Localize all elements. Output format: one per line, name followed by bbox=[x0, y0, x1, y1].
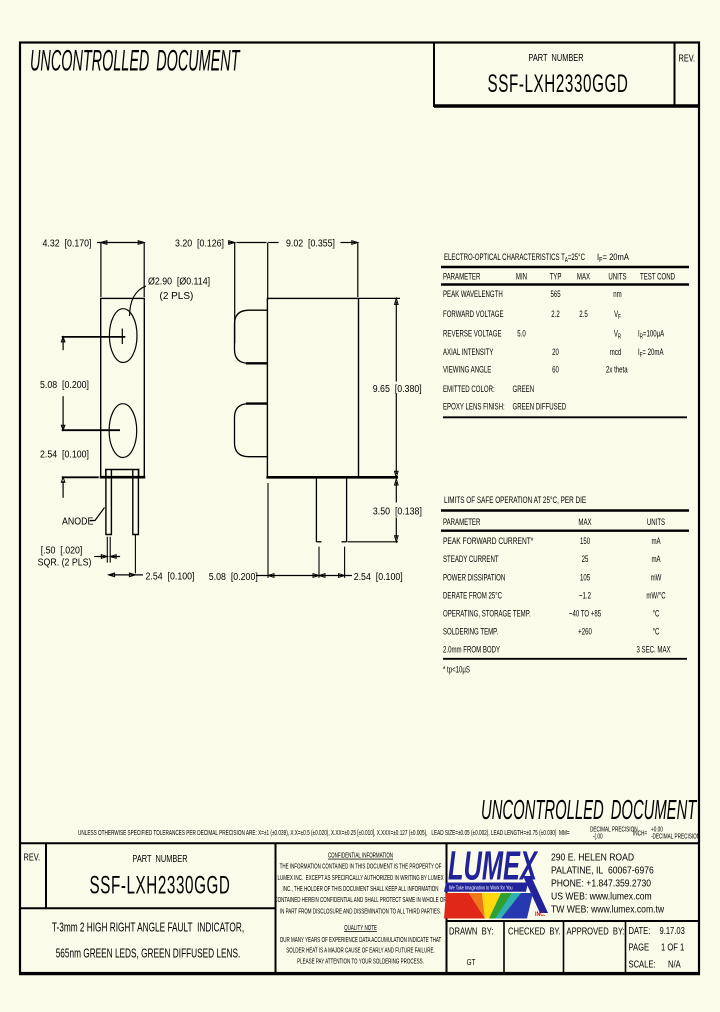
svg-text:UNCONTROLLED DOCUMENT: UNCONTROLLED DOCUMENT bbox=[30, 44, 241, 77]
lead 2 extension line below bbox=[134, 535, 136, 573]
svg-text:LIMITS OF SAFE OPERATION AT 25: LIMITS OF SAFE OPERATION AT 25°C, PER DI… bbox=[444, 495, 587, 506]
svg-text:VF: VF bbox=[614, 309, 621, 322]
svg-text:UNLESS OTHERWISE SPECIFIED TOL: UNLESS OTHERWISE SPECIFIED TOLERANCES PE… bbox=[78, 830, 570, 837]
svg-text:PHONE: +1.847.359.2730: PHONE: +1.847.359.2730 bbox=[551, 878, 651, 889]
svg-text:ANODE: ANODE bbox=[62, 516, 94, 528]
svg-text:SQR. (2 PLS): SQR. (2 PLS) bbox=[38, 557, 92, 569]
svg-text:5.0: 5.0 bbox=[517, 328, 526, 339]
lead side view left edge bbox=[315, 477, 317, 542]
svg-text:IR=100μA: IR=100μA bbox=[638, 328, 665, 341]
svg-text:PARAMETER: PARAMETER bbox=[443, 271, 481, 282]
lead 1 bottom tick bbox=[316, 541, 321, 543]
dimension 2.54 line segment below bbox=[62, 481, 64, 498]
svg-text:565nm GREEN LEDS, GREEN DIFFUS: 565nm GREEN LEDS, GREEN DIFFUSED LENS. bbox=[56, 947, 241, 961]
svg-text:GREEN: GREEN bbox=[513, 384, 535, 395]
svg-text:2x theta: 2x theta bbox=[606, 364, 628, 375]
svg-text:N/A: N/A bbox=[668, 958, 681, 969]
svg-text:-(.00: -(.00 bbox=[593, 834, 603, 841]
dimension 2.54 bottom side view bbox=[320, 575, 352, 577]
logo rainbow bbox=[444, 893, 533, 919]
svg-text:OUR MANY YEARS OF EXPERIENCE D: OUR MANY YEARS OF EXPERIENCE DATA ACCUMU… bbox=[280, 936, 442, 944]
svg-text:T-3mm 2 HIGH RIGHT ANGLE FAULT: T-3mm 2 HIGH RIGHT ANGLE FAULT INDICATOR… bbox=[52, 921, 244, 935]
extensions below leads bbox=[318, 547, 320, 578]
svg-text:5.08 [0.200]: 5.08 [0.200] bbox=[40, 379, 89, 391]
svg-text:(2 PLS): (2 PLS) bbox=[160, 291, 194, 302]
body bottom edge thick bbox=[100, 476, 146, 479]
dimension 4.32 extension lines bbox=[100, 243, 102, 298]
svg-text:SSF-LXH2330GGD: SSF-LXH2330GGD bbox=[487, 70, 628, 98]
lead 2 front view bbox=[133, 470, 139, 535]
extension line body left top bbox=[267, 243, 269, 301]
svg-text:-DECIMAL PRECISION: -DECIMAL PRECISION bbox=[651, 834, 700, 841]
svg-text:EMITTED COLOR:: EMITTED COLOR: bbox=[443, 384, 495, 395]
svg-text:3 SEC. MAX: 3 SEC. MAX bbox=[636, 644, 671, 655]
svg-text:UNCONTROLLED DOCUMENT: UNCONTROLLED DOCUMENT bbox=[481, 794, 697, 825]
svg-text:GT: GT bbox=[467, 957, 476, 967]
svg-text:mW/°C: mW/°C bbox=[646, 590, 665, 601]
svg-text:60: 60 bbox=[552, 364, 559, 375]
title block divider checked/approved bbox=[563, 921, 565, 973]
svg-text:mW: mW bbox=[651, 572, 662, 583]
dimension 2.54 lead pitch front bbox=[109, 574, 143, 576]
svg-text:EPOXY LENS FINISH:: EPOXY LENS FINISH: bbox=[443, 401, 505, 412]
svg-text:PART NUMBER: PART NUMBER bbox=[132, 853, 187, 864]
svg-text:PLEASE PAY ATTENTION TO YOUR S: PLEASE PAY ATTENTION TO YOUR SOLDERING P… bbox=[297, 957, 424, 965]
part number box top bbox=[433, 42, 435, 107]
svg-text:POWER DISSIPATION: POWER DISSIPATION bbox=[443, 572, 505, 583]
svg-text:[.50 [.020]: [.50 [.020] bbox=[41, 545, 83, 557]
lead width extension lines bbox=[106, 537, 108, 563]
svg-text:mcd: mcd bbox=[610, 347, 621, 358]
svg-text:TEST COND: TEST COND bbox=[640, 271, 675, 282]
svg-text:DECIMAL PRECISION: DECIMAL PRECISION bbox=[590, 827, 638, 834]
svg-text:VIEWING ANGLE: VIEWING ANGLE bbox=[443, 364, 491, 375]
lead bottom extension line bbox=[348, 541, 398, 543]
svg-text:INC., THE HOLDER OF THIS DOCUM: INC., THE HOLDER OF THIS DOCUMENT SHALL … bbox=[283, 885, 439, 893]
dome 2 top thick bbox=[246, 402, 267, 404]
lead 1 front view bbox=[106, 470, 112, 535]
center tick lens 1 bbox=[121, 329, 123, 345]
svg-text:SOLDER HEAT IS A MAJOR CAUSE O: SOLDER HEAT IS A MAJOR CAUSE OF EARLY AN… bbox=[286, 946, 435, 954]
table 2 rule bottom bbox=[443, 658, 687, 660]
svg-text:SSF-LXH2330GGD: SSF-LXH2330GGD bbox=[89, 872, 230, 900]
svg-text:LUMEX: LUMEX bbox=[448, 843, 539, 889]
dome 1 bottom thick bbox=[246, 362, 267, 364]
svg-text:UNITS: UNITS bbox=[608, 271, 626, 282]
title block top line bbox=[20, 842, 699, 844]
svg-text:MIN: MIN bbox=[516, 271, 527, 282]
svg-text:+260: +260 bbox=[578, 626, 592, 637]
svg-text:PAGE: PAGE bbox=[629, 941, 650, 952]
svg-text:MAX: MAX bbox=[577, 271, 591, 282]
svg-text:AXIAL INTENSITY: AXIAL INTENSITY bbox=[443, 347, 494, 358]
svg-text:VR: VR bbox=[614, 328, 621, 341]
svg-text:2.54 [0.100]: 2.54 [0.100] bbox=[354, 571, 403, 583]
svg-text:290 E. HELEN ROAD: 290 E. HELEN ROAD bbox=[551, 852, 634, 863]
svg-text:9.02 [0.355]: 9.02 [0.355] bbox=[286, 238, 335, 250]
table 1 rule bottom bbox=[443, 416, 687, 418]
svg-text:PARAMETER: PARAMETER bbox=[443, 517, 481, 528]
svg-text:REV.: REV. bbox=[679, 52, 696, 63]
svg-text:REV.: REV. bbox=[24, 851, 41, 862]
svg-text:CONTAINED HEREIN CONFIDENTIAL: CONTAINED HEREIN CONFIDENTIAL AND SHALL … bbox=[274, 896, 447, 904]
svg-text:2.5: 2.5 bbox=[579, 309, 588, 320]
dimension 3.50 vertical bbox=[395, 482, 397, 503]
svg-text:20: 20 bbox=[552, 347, 559, 358]
svg-text:2.54 [0.100]: 2.54 [0.100] bbox=[40, 449, 89, 461]
border frame bottom thick bbox=[19, 972, 700, 975]
svg-text:mA: mA bbox=[651, 554, 661, 565]
left extension below body bbox=[267, 483, 269, 578]
title block divider drawn/checked bbox=[503, 921, 505, 973]
svg-text:PEAK WAVELENGTH: PEAK WAVELENGTH bbox=[443, 289, 503, 300]
svg-text:STEADY CURRENT: STEADY CURRENT bbox=[443, 554, 499, 565]
svg-text:nm: nm bbox=[613, 289, 622, 300]
svg-text:ELECTRO-OPTICAL CHARACTERISTIC: ELECTRO-OPTICAL CHARACTERISTICS TA=25°C bbox=[444, 252, 585, 265]
table 1 rule under header bbox=[441, 283, 689, 285]
svg-text:DRAWN BY:: DRAWN BY: bbox=[449, 925, 493, 936]
svg-text:150: 150 bbox=[580, 536, 591, 547]
LED lens circle 2 bbox=[109, 404, 137, 458]
svg-text:1 OF 1: 1 OF 1 bbox=[661, 941, 684, 952]
svg-text:SCALE:: SCALE: bbox=[629, 958, 656, 969]
top extension line right bbox=[359, 297, 401, 299]
svg-text:25: 25 bbox=[582, 554, 589, 565]
svg-text:IF= 20mA: IF= 20mA bbox=[597, 251, 629, 264]
svg-text:FORWARD VOLTAGE: FORWARD VOLTAGE bbox=[443, 309, 504, 320]
lens dome 1 side bbox=[235, 310, 268, 363]
dimension 5.08 bottom side view bbox=[256, 575, 317, 577]
lead width dimension arrows bbox=[94, 556, 106, 558]
svg-text:THE INFORMATION CONTAINED IN T: THE INFORMATION CONTAINED IN THIS DOCUME… bbox=[280, 863, 442, 871]
extension line body right top bbox=[357, 243, 359, 298]
svg-text:CHECKED BY.: CHECKED BY. bbox=[508, 925, 561, 936]
svg-text:9.17.03: 9.17.03 bbox=[660, 925, 685, 936]
svg-text:DATE:: DATE: bbox=[629, 925, 651, 936]
svg-text:PEAK FORWARD CURRENT*: PEAK FORWARD CURRENT* bbox=[443, 536, 534, 546]
leader for dia 2.90 bbox=[130, 286, 147, 316]
body side bottom thick bbox=[266, 476, 398, 479]
title block line under logo/address bbox=[447, 920, 700, 922]
svg-text:INCH=: INCH= bbox=[633, 831, 648, 838]
dimension 4.32 line bbox=[97, 242, 144, 244]
lead side view right edge bbox=[346, 477, 348, 542]
svg-text:4.32 [0.170]: 4.32 [0.170] bbox=[43, 238, 92, 250]
title block line under part number bbox=[20, 907, 276, 909]
svg-text:TW WEB: www.lumex.com.tw: TW WEB: www.lumex.com.tw bbox=[551, 904, 664, 915]
svg-text:IF= 20mA: IF= 20mA bbox=[638, 347, 664, 360]
svg-text:DERATE FROM 25°C: DERATE FROM 25°C bbox=[443, 590, 502, 601]
svg-text:REVERSE VOLTAGE: REVERSE VOLTAGE bbox=[443, 328, 502, 339]
dimension 5.08 vertical line bbox=[62, 339, 64, 350]
lead 2 bottom tick bbox=[342, 541, 347, 543]
svg-text:QUALITY NOTE: QUALITY NOTE bbox=[344, 924, 377, 932]
svg-text:2.2: 2.2 bbox=[551, 309, 560, 320]
svg-text:565: 565 bbox=[550, 289, 561, 300]
svg-text:+0.00: +0.00 bbox=[651, 827, 663, 834]
title block divider rev bbox=[45, 843, 47, 908]
svg-text:−1.2: −1.2 bbox=[579, 590, 591, 601]
svg-text:PALATINE, IL 60067-6976: PALATINE, IL 60067-6976 bbox=[551, 865, 654, 876]
LED body side view bbox=[267, 298, 358, 477]
lens dome 2 side bbox=[235, 404, 268, 457]
svg-text:SOLDERING TEMP.: SOLDERING TEMP. bbox=[443, 626, 498, 637]
centerline through lens 1 bbox=[62, 336, 126, 338]
svg-text:MAX: MAX bbox=[578, 517, 592, 528]
svg-text:* tp<10μS: * tp<10μS bbox=[443, 664, 470, 675]
svg-text:105: 105 bbox=[580, 572, 591, 583]
title block divider part/confidential bbox=[275, 843, 277, 973]
svg-text:Ø2.90 [Ø0.114]: Ø2.90 [Ø0.114] bbox=[148, 276, 210, 288]
svg-text:5.08 [0.200]: 5.08 [0.200] bbox=[209, 571, 258, 583]
svg-text:9.65 [0.380]: 9.65 [0.380] bbox=[373, 383, 422, 395]
svg-text:°C: °C bbox=[653, 626, 660, 637]
svg-text:2.54 [0.100]: 2.54 [0.100] bbox=[146, 571, 195, 583]
table 1 rule top bbox=[441, 266, 689, 268]
dimension line 3.20/9.02 bbox=[228, 242, 234, 244]
logo tagline bar bbox=[444, 883, 528, 892]
body bottom step bbox=[106, 470, 139, 478]
svg-text:UNITS: UNITS bbox=[647, 517, 665, 528]
logo X tail bbox=[523, 876, 548, 913]
svg-text:CONFIDENTIAL INFORMATION: CONFIDENTIAL INFORMATION bbox=[328, 851, 393, 859]
table 2 rule under header bbox=[441, 530, 689, 532]
table 2 rule top bbox=[441, 509, 689, 511]
title block divider confidential/logo bbox=[446, 843, 448, 973]
svg-text:LUMEX INC. EXCEPT AS SPECIFIC: LUMEX INC. EXCEPT AS SPECIFICALLY AUTHOR… bbox=[277, 874, 443, 882]
svg-text:3.50 [0.138]: 3.50 [0.138] bbox=[373, 506, 422, 518]
svg-text:−40 TO +85: −40 TO +85 bbox=[569, 608, 602, 619]
svg-text:2.0mm FROM BODY: 2.0mm FROM BODY bbox=[443, 644, 501, 655]
body bottom extension line left bbox=[62, 476, 99, 478]
svg-text:GREEN DIFFUSED: GREEN DIFFUSED bbox=[513, 401, 567, 412]
svg-text:US WEB: www.lumex.com: US WEB: www.lumex.com bbox=[551, 891, 652, 902]
dimension 9.65 vertical bbox=[395, 302, 397, 382]
leader ANODE bbox=[90, 508, 105, 521]
title block divider approved/date bbox=[625, 921, 627, 973]
svg-text:°C: °C bbox=[653, 608, 660, 619]
Lumex logo bbox=[444, 843, 548, 918]
svg-text:We Take Imagination to Work fo: We Take Imagination to Work for You bbox=[449, 885, 513, 891]
svg-text:PART NUMBER: PART NUMBER bbox=[528, 52, 583, 63]
LED body front view bbox=[101, 298, 145, 477]
svg-text:3.20 [0.126]: 3.20 [0.126] bbox=[175, 238, 224, 250]
svg-text:APPROVED BY:: APPROVED BY: bbox=[567, 925, 625, 936]
svg-text:TYP: TYP bbox=[550, 271, 562, 282]
extension line dome tip bbox=[234, 243, 236, 344]
LED lens circle 1 bbox=[109, 309, 137, 363]
svg-text:mA: mA bbox=[651, 536, 661, 547]
svg-text:INC.: INC. bbox=[535, 912, 546, 919]
svg-text:IN PART FROM DISCLOSURE AND DI: IN PART FROM DISCLOSURE AND DISSEMINATIO… bbox=[280, 907, 441, 915]
centerline through lens 2 bbox=[62, 429, 120, 431]
svg-text:OPERATING, STORAGE TEMP.: OPERATING, STORAGE TEMP. bbox=[443, 608, 531, 619]
